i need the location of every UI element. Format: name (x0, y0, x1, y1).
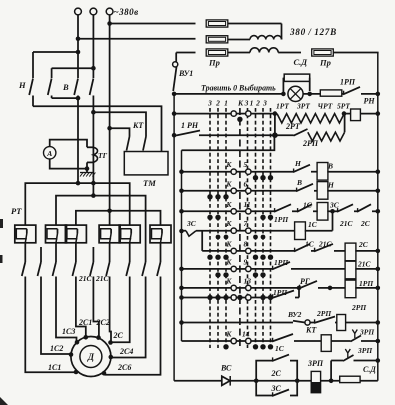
contact KT pole2 (143, 137, 146, 151)
svg-text:ВУ1: ВУ1 (178, 69, 193, 78)
fuse Pr2 (206, 36, 228, 43)
label 1S K14 (275, 344, 285, 353)
coil 2S (334, 243, 380, 261)
row K5 (179, 160, 273, 180)
svg-text:14: 14 (242, 330, 250, 339)
coil 1RP (345, 280, 380, 298)
svg-text:3РП: 3РП (359, 328, 375, 337)
right rail (377, 53, 379, 381)
wire ammeter top (50, 140, 87, 148)
svg-text:1 РН: 1 РН (181, 121, 199, 130)
node after 3RP coil (321, 379, 340, 384)
bus 2 (56, 193, 146, 247)
svg-text:1С: 1С (275, 344, 285, 353)
svg-text:2С: 2С (360, 219, 371, 228)
label 2S K11 (360, 219, 371, 228)
svg-text:2С: 2С (271, 369, 282, 378)
terminal L1 (75, 8, 82, 78)
svg-text:ТМ: ТМ (143, 178, 156, 188)
row 1RP aux (179, 295, 273, 300)
svg-text:1РП: 1РП (273, 288, 288, 297)
svg-text:1РП: 1РП (340, 78, 356, 87)
svg-text:ВУ2: ВУ2 (287, 310, 302, 319)
row K13 contact RG (251, 281, 346, 290)
row VU2 (179, 320, 293, 325)
label 2S1 (78, 318, 92, 327)
ground (80, 169, 95, 177)
label V (62, 82, 69, 92)
label Travit 0 Vybirat (201, 84, 276, 93)
label 21S coil (357, 260, 372, 269)
svg-text:К: К (237, 99, 244, 108)
resistor SD bypass (283, 74, 320, 96)
svg-text:1С: 1С (305, 240, 315, 249)
wire ammeter bottom (50, 159, 90, 171)
contact V pole1 (48, 79, 52, 99)
wire 1S2 (41, 287, 73, 357)
current transformer TG (87, 147, 98, 162)
svg-text:1: 1 (224, 99, 228, 108)
label KT (132, 121, 144, 130)
controller zero col K (239, 108, 241, 348)
motor D (71, 337, 111, 377)
power contact pole1 (22, 243, 26, 287)
label 1RP K9 (274, 258, 289, 267)
row1 K position dot (237, 117, 242, 122)
svg-text:3С: 3С (271, 384, 282, 393)
wire V bottom bar (52, 96, 81, 101)
svg-text:1С: 1С (303, 201, 313, 210)
svg-text:9: 9 (244, 257, 248, 266)
rail A from VU1 (172, 92, 177, 381)
svg-text:Н: Н (294, 159, 302, 168)
wire L2 tap to KT (91, 110, 146, 137)
svg-text:2С: 2С (358, 240, 369, 249)
label RT (11, 206, 22, 216)
svg-text:В: В (62, 82, 69, 92)
contact 1RP aux (251, 288, 299, 298)
contact 1RP lamp row (343, 87, 380, 96)
transformer secondary winding (250, 48, 278, 53)
label N (18, 80, 26, 90)
fuse Pr1 (206, 20, 228, 27)
label 21S K8 (318, 240, 333, 249)
svg-text:3: 3 (262, 99, 267, 108)
svg-text:К: К (225, 257, 232, 266)
row K11 contact 2S (354, 204, 380, 213)
svg-text:Пр: Пр (208, 58, 220, 68)
node after 2S3S (256, 379, 311, 384)
wire L1 to fuse Pr2 (76, 37, 196, 42)
power contact pole3 (53, 243, 57, 287)
label 3RP coil (307, 359, 324, 368)
svg-text:21С: 21С (78, 274, 93, 283)
row K6 right to N coil (251, 182, 380, 200)
label 1S coil (308, 220, 318, 229)
label V coil (327, 162, 333, 171)
label TG (98, 151, 108, 160)
label TM (143, 178, 156, 188)
overload element RT6 (150, 225, 171, 243)
svg-text:5: 5 (244, 160, 248, 169)
wire rail B feed (182, 135, 275, 150)
controller pos col 3R2 (270, 108, 272, 348)
contact N pole1 (29, 79, 33, 107)
svg-text:3: 3 (207, 99, 212, 108)
controller pos col 2L (217, 108, 219, 348)
label 2S coil (358, 240, 369, 249)
fuse Pr4 (312, 49, 334, 56)
row K8 contact 1S (251, 244, 310, 252)
svg-text:2С2: 2С2 (96, 318, 110, 327)
row K6 (179, 179, 251, 199)
contact 3S parallel (256, 381, 297, 397)
svg-text:Травить 0 Выбирать: Травить 0 Выбирать (201, 84, 276, 93)
label 1RP lamp (340, 78, 356, 87)
controller position headers (207, 99, 267, 108)
contact 3RP no2 (331, 349, 380, 381)
controller pos col 2R (262, 108, 264, 348)
label 1RN (181, 121, 199, 130)
label 3RP no2 (357, 346, 373, 355)
svg-text:КТ: КТ (305, 326, 317, 335)
wire 1S3 (56, 287, 79, 345)
svg-text:11: 11 (244, 200, 251, 209)
svg-text:1РП: 1РП (359, 279, 374, 288)
row K9 (179, 257, 265, 277)
power contact pole6 (106, 243, 110, 287)
wire N branch top bar (33, 50, 80, 78)
bus 3 (76, 209, 161, 225)
svg-text:В: В (327, 162, 333, 171)
row K13 (179, 276, 251, 290)
wire fuse Pr1 to transformer (228, 24, 282, 40)
label VU1 (178, 69, 193, 78)
label 1RP aux (273, 288, 288, 297)
label 3S coil (329, 201, 340, 210)
wire L3 to fuse Pr1 (107, 21, 195, 26)
label V contact K6 (296, 178, 302, 187)
overload element RT1 (15, 225, 36, 243)
power contact pole5 (90, 247, 94, 287)
contact V pole2 on phase L1 (74, 79, 78, 184)
svg-text:~380в: ~380в (114, 7, 139, 17)
relay 3RP coil (311, 371, 320, 392)
wire 2S3 top (110, 287, 111, 342)
row K5 right to V coil (251, 163, 380, 181)
svg-text:С.Д: С.Д (294, 57, 309, 67)
fuse Pr3 (206, 49, 228, 56)
label 21S K11 (339, 219, 354, 228)
label 2S parallel (271, 369, 282, 378)
row K14 contact 1S (251, 334, 321, 342)
label Pr fuse4 (319, 58, 331, 68)
svg-text:Д: Д (87, 352, 95, 362)
wire 2S4 (109, 287, 146, 359)
label 3RP no1 (359, 328, 375, 337)
svg-text:1РП: 1РП (274, 215, 289, 224)
label 3S parallel (271, 384, 282, 393)
label 2RP contact (316, 309, 332, 318)
svg-text:К: К (225, 276, 232, 285)
overload element RT4 (99, 225, 120, 243)
wire N bottom bar to TM (33, 106, 162, 151)
svg-text:2РП: 2РП (316, 309, 332, 318)
svg-text:1С2: 1С2 (50, 344, 63, 353)
svg-text:К: К (225, 330, 232, 339)
label 380/127V (289, 27, 337, 37)
relay coil RN (344, 109, 380, 121)
label 2RP coil (351, 303, 367, 312)
terminal L2 (90, 8, 97, 78)
wire 2S3 (108, 287, 130, 345)
svg-text:1РП: 1РП (274, 258, 289, 267)
power contact pole2 (38, 247, 42, 287)
svg-text:2С: 2С (113, 331, 124, 340)
link K11-K7 (332, 211, 334, 230)
svg-text:ТГ: ТГ (98, 151, 108, 160)
svg-text:Пр: Пр (319, 58, 331, 68)
svg-text:К: К (225, 200, 232, 209)
svg-text:3РП: 3РП (307, 359, 324, 368)
transformer primary winding (250, 36, 282, 40)
wire fuse Pr4 to right rail (333, 52, 378, 54)
label 1S1 (48, 363, 61, 372)
resistor SD bottom (340, 376, 378, 382)
svg-text:Н: Н (18, 80, 26, 90)
svg-text:РН: РН (364, 97, 376, 106)
contact 1RN (172, 131, 275, 138)
row K8 (202, 239, 273, 260)
power contact pole4 (72, 243, 76, 287)
row K9 contact 1RP (251, 262, 346, 270)
scan mark left2 (0, 255, 3, 263)
wire VU1 to fuse Pr3 (176, 52, 195, 54)
row K11 contact 21S (333, 204, 354, 212)
label VS (220, 364, 232, 373)
wire L3 tap to KT (107, 126, 129, 137)
wire V branch top bar (52, 66, 96, 78)
label RG (300, 277, 310, 286)
signal lamp (288, 86, 303, 101)
ballast box lamp row (320, 90, 343, 96)
label Pr fuses (208, 58, 220, 68)
label SD bottom (363, 365, 376, 374)
svg-text:Н: Н (327, 181, 335, 190)
power contact pole8 (142, 247, 146, 287)
overload element RT5 (119, 225, 140, 243)
svg-text:2РП: 2РП (351, 303, 367, 312)
scan mark left1 (0, 219, 3, 228)
svg-text:2С1: 2С1 (78, 318, 92, 327)
coil 21S (345, 261, 380, 279)
brake magnet TM (124, 152, 168, 175)
label RN (364, 97, 376, 106)
row K7 (216, 219, 266, 239)
svg-text:3РП: 3РП (357, 346, 373, 355)
power contact pole9 (157, 243, 161, 287)
wire 2S2 (93, 287, 100, 340)
label 2S6 (117, 363, 131, 372)
label 2RT (285, 122, 301, 131)
rail B (181, 150, 183, 341)
contact N pole2 on phase L2 (90, 79, 94, 196)
controller pos col 3R (247, 108, 249, 348)
row1 wire with contacts (172, 111, 277, 116)
link K7-K8 (201, 231, 203, 251)
svg-text:21С: 21С (95, 274, 110, 283)
label 1S K8 (305, 240, 315, 249)
coil KT (321, 335, 348, 352)
label 1S3 (62, 327, 75, 336)
svg-text:13: 13 (244, 276, 252, 285)
svg-text:2: 2 (215, 99, 220, 108)
label 1S K11 (303, 201, 313, 210)
wire secondary to fuse Pr4 (278, 52, 301, 54)
svg-text:В: В (296, 178, 302, 187)
controller pos col 1L (225, 108, 227, 348)
svg-text:1С1: 1С1 (48, 363, 61, 372)
wire 2S1 (76, 287, 88, 340)
label SD resistor top (294, 57, 309, 67)
svg-text:2: 2 (255, 99, 260, 108)
label 2S4 (119, 347, 133, 356)
svg-text:К: К (225, 219, 232, 228)
label N coil (327, 181, 335, 190)
terminal L3 (106, 8, 113, 225)
svg-text:21С: 21С (339, 219, 354, 228)
bus 1 (25, 181, 129, 225)
svg-text:К: К (225, 179, 232, 188)
overload element RT2 (46, 225, 67, 243)
svg-text:ЧРТ: ЧРТ (318, 102, 333, 111)
wire fuse Pr3 to secondary (228, 52, 250, 54)
label 2S (113, 331, 124, 340)
label ~380v (114, 7, 139, 17)
wire fuse Pr2 to winding (228, 39, 250, 41)
contact 3S left (179, 229, 231, 237)
contact 2RT bypass (272, 114, 345, 141)
label 2RP under (302, 139, 319, 148)
svg-text:3С: 3С (186, 219, 197, 228)
svg-text:1: 1 (250, 99, 254, 108)
svg-text:5РТ: 5РТ (337, 102, 350, 111)
power contact pole7 (126, 243, 130, 287)
overload element RT3 (65, 225, 86, 243)
svg-text:3РТ: 3РТ (296, 102, 310, 111)
scan mark corner (0, 397, 8, 405)
row K11 contact 1S (292, 204, 312, 212)
coil 1S (251, 222, 333, 240)
svg-text:21С: 21С (357, 260, 372, 269)
svg-text:С.Д: С.Д (363, 365, 376, 374)
bottom row wire (174, 380, 221, 382)
row K11 (179, 200, 273, 220)
diode VS (222, 376, 256, 386)
svg-text:21С: 21С (318, 240, 333, 249)
svg-text:1РТ: 1РТ (276, 102, 289, 111)
svg-text:РТ: РТ (11, 206, 22, 216)
coil 2RP (335, 315, 380, 331)
switch VU1 (173, 53, 178, 92)
label N contact K5 (294, 159, 302, 168)
node before 2S3S (254, 379, 259, 384)
svg-text:А: А (46, 149, 52, 158)
label 3S left (186, 219, 197, 228)
svg-text:РГ: РГ (300, 277, 310, 286)
lamp row wire (174, 92, 286, 97)
coil 3S (313, 203, 335, 221)
svg-text:3: 3 (244, 99, 249, 108)
svg-text:КТ: КТ (132, 121, 144, 130)
wire 1S1 (25, 287, 78, 374)
label 2S2 (96, 318, 110, 327)
label 1RP coil (359, 279, 374, 288)
label VU2 (287, 310, 302, 319)
controller pos col 3L (209, 108, 211, 348)
wire 2S6 (102, 287, 161, 376)
svg-text:380 / 127В: 380 / 127В (289, 27, 337, 37)
svg-text:ВС: ВС (220, 364, 232, 373)
label 1RP K11 (274, 215, 289, 224)
svg-text:1С3: 1С3 (62, 327, 75, 336)
svg-text:2С4: 2С4 (119, 347, 133, 356)
row K8 contact 21S (311, 244, 333, 252)
label 21S right (95, 274, 110, 283)
svg-text:6: 6 (244, 179, 248, 188)
contact 2S parallel (256, 355, 297, 381)
labels 1RT 3RT 4RT 5RT (276, 102, 350, 111)
contact 3RP no1 (348, 330, 380, 344)
label KT coil (305, 326, 317, 335)
svg-text:2РТ: 2РТ (285, 122, 301, 131)
svg-text:К: К (225, 239, 232, 248)
svg-text:2РП: 2РП (302, 139, 319, 148)
controller pos col 1R (255, 108, 257, 348)
ammeter A (44, 147, 56, 159)
svg-text:2С6: 2С6 (117, 363, 131, 372)
svg-text:8: 8 (244, 239, 248, 248)
label 21S left (78, 274, 93, 283)
contact KT pole1 (127, 137, 130, 151)
row K11 contact 1RP (251, 204, 291, 212)
row K14 (182, 330, 274, 350)
resistor chain 1RT-5RT (277, 111, 346, 123)
svg-text:1С: 1С (308, 220, 318, 229)
label 1S2 (50, 344, 63, 353)
svg-text:К: К (225, 160, 232, 169)
contact 2RP VU2row (314, 317, 335, 324)
svg-text:7: 7 (244, 219, 248, 228)
switch VU2 (293, 320, 314, 325)
